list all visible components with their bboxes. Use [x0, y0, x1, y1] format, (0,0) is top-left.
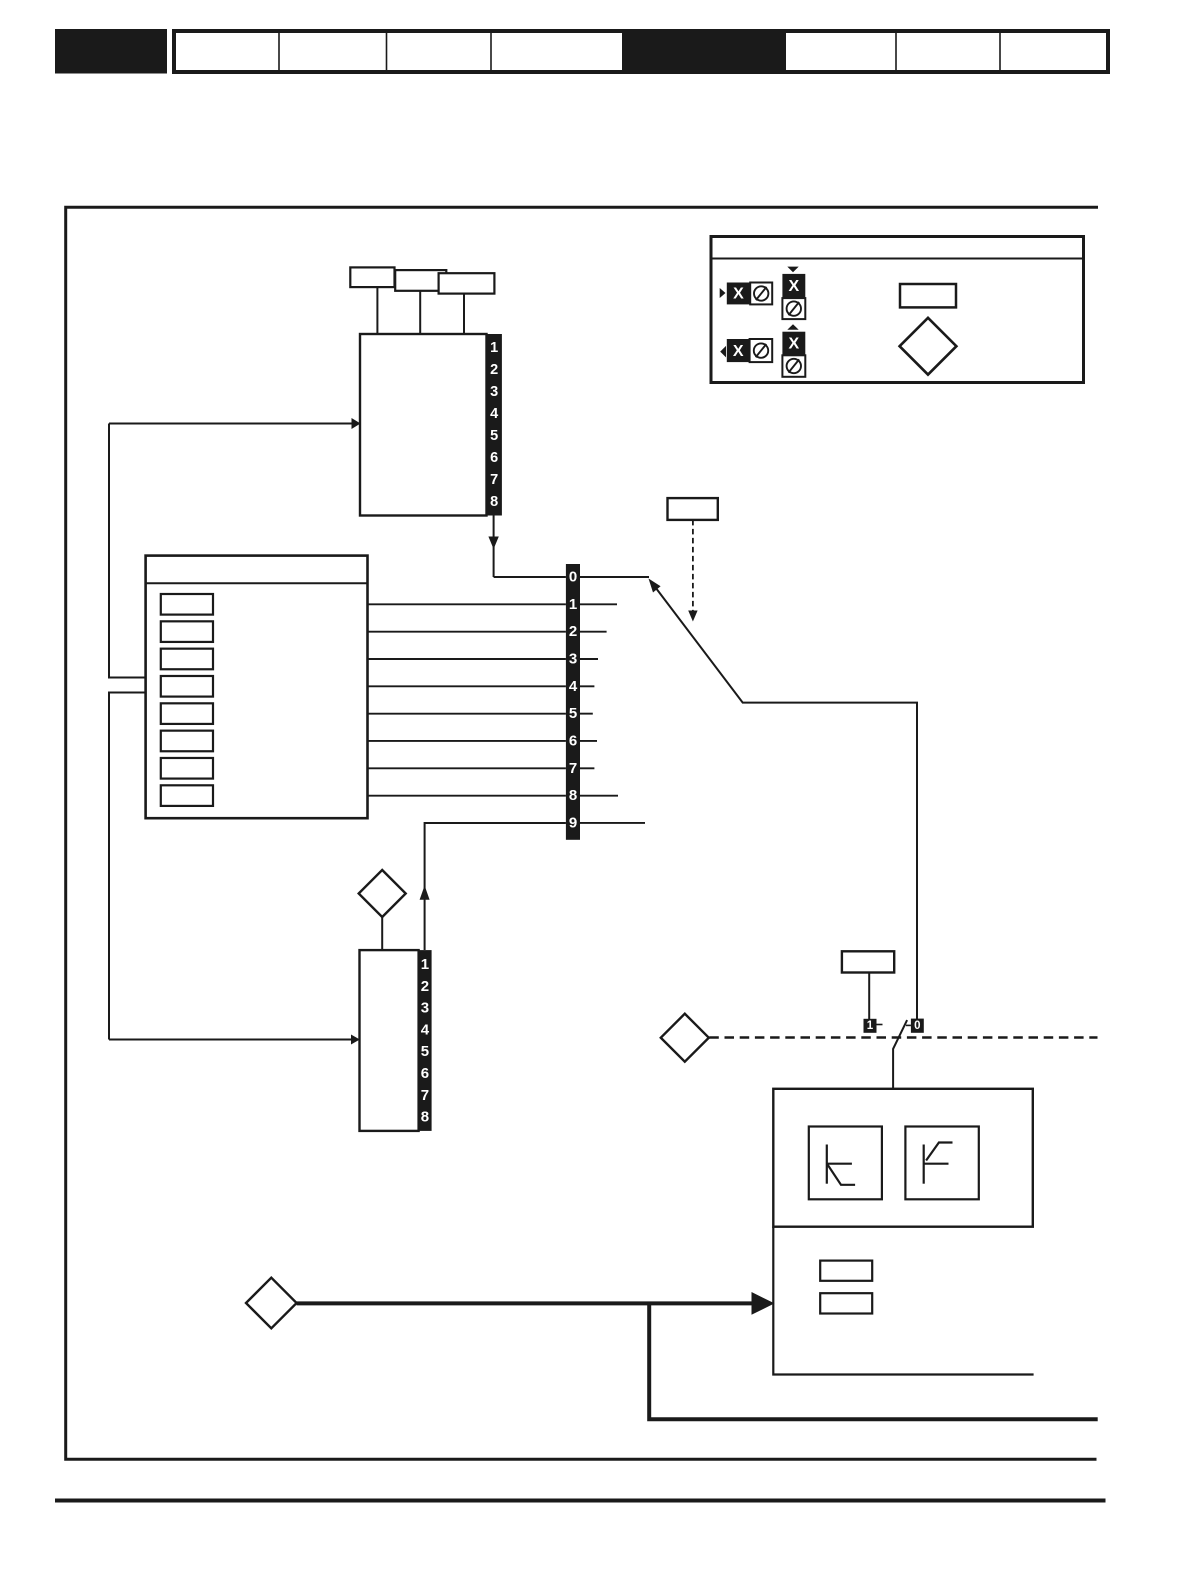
svg-text:2: 2	[421, 978, 429, 995]
svg-text:4: 4	[421, 1021, 430, 1038]
svg-text:5: 5	[490, 428, 498, 444]
svg-text:8: 8	[421, 1109, 429, 1126]
svg-text:1: 1	[421, 956, 429, 973]
svg-text:5: 5	[421, 1043, 429, 1060]
svg-text:3: 3	[490, 384, 498, 400]
svg-text:X: X	[733, 343, 744, 360]
svg-text:3: 3	[421, 1000, 429, 1017]
svg-text:X: X	[733, 286, 744, 303]
svg-text:6: 6	[490, 450, 498, 466]
svg-text:1: 1	[490, 340, 498, 356]
svg-text:6: 6	[421, 1065, 429, 1082]
svg-text:3: 3	[569, 650, 577, 667]
svg-text:2: 2	[490, 362, 498, 378]
svg-text:7: 7	[490, 472, 498, 488]
svg-text:7: 7	[421, 1087, 429, 1104]
svg-text:X: X	[788, 278, 799, 295]
svg-text:4: 4	[569, 678, 578, 695]
svg-text:1: 1	[569, 596, 577, 613]
svg-text:8: 8	[569, 787, 577, 804]
svg-text:7: 7	[569, 760, 577, 777]
svg-text:0: 0	[914, 1020, 920, 1032]
svg-text:5: 5	[569, 705, 577, 722]
svg-text:6: 6	[569, 732, 577, 749]
svg-text:8: 8	[490, 494, 498, 510]
svg-text:9: 9	[569, 814, 577, 831]
svg-text:4: 4	[490, 406, 498, 422]
svg-text:2: 2	[569, 623, 577, 640]
svg-text:X: X	[788, 336, 799, 353]
svg-text:1: 1	[867, 1020, 874, 1032]
svg-text:0: 0	[569, 569, 577, 586]
